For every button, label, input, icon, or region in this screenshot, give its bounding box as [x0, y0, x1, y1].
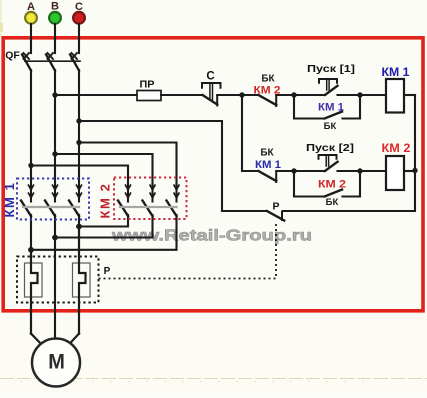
- junction node 2: [291, 92, 296, 97]
- svg-text:КМ 1: КМ 1: [318, 102, 344, 114]
- junction tap crossover C: [76, 140, 81, 145]
- junction node 6 on rail: [412, 168, 417, 173]
- aux NC contact BK KM2: [242, 95, 294, 106]
- start button Pusk 1 plunger: [319, 79, 337, 90]
- label coil KM 1: [382, 65, 410, 79]
- start button Pusk 1 NO contact: [294, 86, 360, 95]
- svg-text:www.Retail-Group.ru: www.Retail-Group.ru: [111, 228, 312, 245]
- contactor KM2 enclosure box: [114, 178, 187, 220]
- junction out node A: [28, 247, 34, 253]
- wire motor lead A diagonal: [31, 334, 43, 346]
- thermal relay heater 2 element: [73, 227, 91, 334]
- contactor KM1 main contact 3: [69, 185, 82, 216]
- label C stop button: [206, 71, 214, 83]
- wire P contact to return: [222, 210, 267, 212]
- start button Pusk 2 plunger: [319, 155, 337, 166]
- aux NO self-hold contact KM2 branch: [294, 171, 360, 197]
- label KM 2 self-hold: [318, 179, 346, 191]
- contactor KM2 main contact 3: [167, 185, 180, 216]
- svg-text:КМ 2: КМ 2: [382, 141, 411, 155]
- junction node 1: [239, 92, 244, 97]
- circuit breaker QF pole 2: [46, 53, 55, 71]
- thermal relay P enclosure box: [17, 257, 99, 303]
- circuit breaker QF pole 3: [70, 53, 79, 71]
- coil KM1: [386, 79, 404, 113]
- wire return to phase C: [79, 121, 222, 211]
- label phase B: [51, 1, 59, 13]
- svg-text:БК: БК: [261, 74, 275, 85]
- wire phase C drop to QF: [78, 24, 80, 53]
- wire KM2 out 2 to phase B node: [55, 215, 153, 238]
- label BK of KM1 NC: [260, 148, 274, 159]
- QF trip tie bar: [25, 60, 80, 62]
- svg-text:БК: БК: [326, 197, 339, 208]
- label Pusk 2: [306, 142, 354, 154]
- label BK under self-hold 2: [326, 197, 339, 208]
- junction out node C: [76, 224, 82, 230]
- circuit breaker QF pole 1: [22, 53, 31, 71]
- label phase C: [75, 1, 83, 13]
- junction node 4: [291, 168, 296, 173]
- wire to coil KM2: [360, 170, 386, 172]
- KM2 mechanical link bar: [120, 206, 177, 208]
- label PR fuse: [140, 79, 155, 91]
- svg-text:C: C: [206, 71, 214, 83]
- contactor KM2 main contact 2: [143, 185, 156, 216]
- junction node 5: [357, 168, 362, 173]
- label Pusk 1: [307, 63, 355, 75]
- svg-text:M: M: [48, 350, 65, 374]
- wire KM2 pole 3 feed: [175, 184, 177, 202]
- stop button C NC contact: [203, 95, 218, 106]
- wire KM2 out 1 to phase C node: [79, 215, 128, 227]
- start button Pusk 2 NO contact: [294, 162, 360, 171]
- junction tap on C for return: [76, 118, 81, 123]
- svg-text:ПР: ПР: [140, 79, 155, 91]
- label P contact: [272, 201, 279, 213]
- contactor KM1 main contact 1: [21, 185, 34, 216]
- wire phase B drop to QF: [54, 24, 56, 53]
- wire KM2 pole 1 feed: [127, 184, 129, 202]
- wire coil KM2 to right rail: [404, 170, 415, 172]
- label BK under self-hold 1: [324, 121, 337, 132]
- wire to coil KM1: [360, 94, 386, 96]
- svg-text:B: B: [51, 1, 59, 13]
- wire crossover phase A to KM2 pole 1: [31, 166, 128, 185]
- junction tap on B for control feed: [52, 92, 57, 97]
- wire phase B through relay to motor: [54, 238, 56, 340]
- junction tap crossover A: [28, 163, 33, 168]
- svg-text:КМ 1: КМ 1: [382, 65, 410, 79]
- wire motor lead C diagonal: [68, 334, 79, 346]
- thermal relay NC contact P: [267, 211, 284, 221]
- junction out node B: [52, 235, 58, 241]
- motor M: [32, 339, 80, 387]
- label BK of KM2 NC: [261, 74, 275, 85]
- node C phase indicator lamp: [73, 12, 85, 24]
- coil KM2: [386, 156, 404, 190]
- svg-text:Пуск [1]: Пуск [1]: [307, 63, 355, 75]
- contactor KM1 enclosure box: [17, 179, 89, 220]
- svg-text:КМ 2: КМ 2: [98, 182, 113, 218]
- svg-text:КМ 2: КМ 2: [254, 85, 281, 97]
- junction node 3: [357, 92, 362, 97]
- right rail wire: [283, 95, 415, 211]
- node A phase indicator lamp: [25, 12, 37, 24]
- wire phase A drop to QF: [30, 24, 32, 53]
- fuse PR: [137, 91, 161, 101]
- border frame (decorative): [3, 38, 423, 311]
- label QF: [5, 50, 20, 62]
- label phase A: [27, 1, 35, 13]
- label KM 2 of NC contact: [254, 85, 281, 97]
- svg-text:КМ 2: КМ 2: [318, 179, 346, 191]
- wire phase B bus: [54, 70, 56, 202]
- dotted link relay to P contact: [99, 222, 277, 279]
- wire C to node 1: [217, 94, 242, 96]
- svg-text:БК: БК: [324, 121, 337, 132]
- label coil KM 2: [382, 141, 411, 155]
- label P relay: [104, 266, 111, 277]
- node B phase indicator lamp: [49, 12, 61, 24]
- svg-text:P: P: [272, 201, 279, 213]
- wire KM2 out 3 to phase A node: [31, 215, 177, 250]
- svg-text:C: C: [75, 1, 83, 13]
- svg-text:P: P: [104, 266, 111, 277]
- wire crossover phase C to KM2 pole 3: [79, 143, 177, 185]
- svg-text:QF: QF: [5, 50, 20, 62]
- svg-text:БК: БК: [260, 148, 274, 159]
- wire control feed from B to fuse: [55, 94, 137, 96]
- stop button C plunger: [202, 83, 221, 100]
- wire KM1 out C: [78, 215, 80, 228]
- wire KM1 out B: [54, 215, 56, 239]
- aux NC contact BK KM1: [259, 171, 295, 182]
- label KM 1 self-hold: [318, 102, 344, 114]
- svg-text:КМ 1: КМ 1: [255, 159, 281, 171]
- contactor KM2 main contact 1: [118, 185, 131, 216]
- svg-text:Пуск [2]: Пуск [2]: [306, 142, 354, 154]
- junction tap crossover B: [52, 151, 57, 156]
- wire coil KM1 to right rail: [404, 94, 415, 96]
- label KM 1 rotated: [2, 181, 17, 217]
- wire phase C bus: [78, 70, 80, 202]
- wire KM1 out A: [30, 215, 32, 251]
- wire fuse to stop button C: [161, 94, 203, 96]
- thermal relay heater 1 element: [25, 250, 43, 334]
- contactor KM1 main contact 2: [45, 185, 58, 216]
- wire node 1 down to branch 2: [242, 95, 259, 171]
- wire KM2 pole 2 feed: [151, 184, 153, 202]
- wire crossover phase B to KM2 pole 2: [55, 154, 153, 184]
- KM1 mechanical link bar: [23, 206, 79, 208]
- svg-text:A: A: [27, 1, 35, 13]
- label M motor: [48, 350, 65, 374]
- svg-text:КМ 1: КМ 1: [2, 181, 17, 217]
- wire phase A bus: [30, 70, 32, 202]
- label KM 1 of NC contact: [255, 159, 281, 171]
- label KM 2 rotated: [98, 182, 113, 218]
- aux NO self-hold contact KM1 branch: [294, 95, 360, 119]
